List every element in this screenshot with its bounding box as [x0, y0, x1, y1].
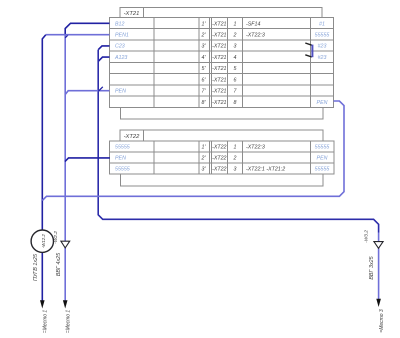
cable W1 circle symbol [31, 230, 53, 252]
terminal block XT22 connection table [110, 141, 334, 174]
svg-text:2: 2 [233, 33, 237, 39]
svg-text:-SF14: -SF14 [246, 21, 260, 27]
svg-text:55555: 55555 [115, 145, 130, 151]
svg-text:A123: A123 [114, 55, 127, 61]
junction chamfer at B12/PEN1 node [65, 35, 68, 38]
svg-text:=Место 1: =Место 1 [66, 310, 72, 334]
wire: XT21 row1 B12 stub to cable W1 drop [65, 23, 109, 35]
cable W3 triangle marker [374, 242, 383, 249]
svg-text:-XT22: -XT22 [212, 166, 226, 172]
svg-text:C23: C23 [115, 44, 125, 50]
svg-text:ВВГ 4х25: ВВГ 4х25 [56, 252, 62, 276]
svg-text:6: 6 [234, 77, 237, 83]
svg-text:55555: 55555 [315, 166, 330, 172]
svg-text:-XT21: -XT21 [212, 89, 226, 95]
svg-text:#1: #1 [319, 21, 325, 27]
wire: XT22 row2 PEN stub [65, 158, 110, 162]
svg-text:B12: B12 [115, 21, 124, 27]
svg-text:8: 8 [234, 100, 237, 106]
svg-text:-XT21: -XT21 [212, 44, 226, 50]
svg-text:PEN: PEN [115, 156, 126, 162]
svg-text:-W12.2: -W12.2 [41, 234, 46, 248]
XT22 table text [115, 145, 329, 173]
svg-text:3: 3 [234, 44, 237, 50]
junction tick at PEN/bus crossing [98, 87, 102, 91]
wire: navy bus down to cable W3 [98, 50, 378, 233]
svg-text:55555: 55555 [315, 145, 330, 151]
svg-text:PEN: PEN [317, 156, 328, 162]
svg-text:-XT22: -XT22 [212, 156, 226, 162]
arrow to location 3 (cable W3) [376, 299, 381, 307]
svg-text:ВВГ 3х25: ВВГ 3х25 [369, 255, 375, 279]
jumper link between XT21 terminals 3 and 4 [305, 43, 312, 57]
terminal block XT22 footer tab [120, 174, 322, 186]
svg-text:-XT21: -XT21 [212, 100, 226, 106]
wire: cable W3 vertical drop (periwinkle) [378, 233, 380, 300]
svg-text:-W2.2: -W2.2 [53, 231, 59, 244]
svg-text:5: 5 [234, 66, 237, 72]
svg-text:-XT21: -XT21 [212, 77, 226, 83]
arrow to location 1 (cable W2) [63, 300, 68, 308]
svg-text:PEN: PEN [115, 89, 126, 95]
arrow to location 1 (cable W1) [40, 300, 45, 308]
svg-text:1: 1 [234, 145, 237, 151]
svg-text:2: 2 [233, 156, 237, 162]
svg-text:-XT21: -XT21 [124, 11, 140, 17]
wire: XT21 row2 PEN1 stub [46, 34, 110, 36]
svg-text:-XT21: -XT21 [212, 21, 226, 27]
svg-text:1: 1 [234, 21, 237, 27]
wire: XT21 row3 C23 stub [98, 46, 109, 50]
svg-text:#23: #23 [318, 44, 327, 50]
svg-text:#23: #23 [318, 55, 327, 61]
wire: XT21 row4 A123 stub [98, 57, 109, 61]
svg-text:4: 4 [234, 55, 237, 61]
terminal block XT21 connection table [110, 18, 334, 108]
svg-text:3: 3 [234, 166, 237, 172]
svg-text:ПУГВ 1х25: ПУГВ 1х25 [33, 253, 39, 281]
svg-text:-XT21: -XT21 [212, 55, 226, 61]
svg-text:-XT22: -XT22 [212, 145, 226, 151]
svg-text:55555: 55555 [115, 166, 130, 172]
terminal block XT21 header tab [120, 8, 322, 18]
svg-text:-XT22: -XT22 [124, 134, 141, 140]
wire: cable W2 vertical drop (periwinkle) [64, 35, 66, 302]
terminal block XT22 header tab [120, 130, 323, 141]
XT21 table text [114, 21, 329, 106]
cable W2 triangle marker [61, 241, 70, 248]
svg-text:PEN: PEN [317, 100, 328, 106]
svg-text:-XT22:1 -XT21:2: -XT22:1 -XT21:2 [246, 166, 285, 172]
svg-text:=Место 3: =Место 3 [379, 309, 385, 333]
svg-text:-XT22:3: -XT22:3 [246, 145, 265, 151]
svg-text:-W3.2: -W3.2 [364, 230, 370, 243]
svg-text:-XT21: -XT21 [212, 66, 226, 72]
svg-text:-XT21: -XT21 [212, 33, 226, 39]
svg-text:-XT22:3: -XT22:3 [246, 33, 265, 39]
svg-text:=Место 1: =Место 1 [43, 310, 49, 334]
terminal block XT21 footer tab [121, 107, 324, 119]
svg-text:55555: 55555 [315, 33, 330, 39]
wire: XT21 row7 PEN stub [65, 91, 109, 95]
svg-text:PEN1: PEN1 [115, 33, 129, 39]
wire: XT21 row8 PEN right exit loop to W1 [42, 101, 344, 201]
wire: cable W1 vertical drop (navy) [42, 35, 46, 302]
